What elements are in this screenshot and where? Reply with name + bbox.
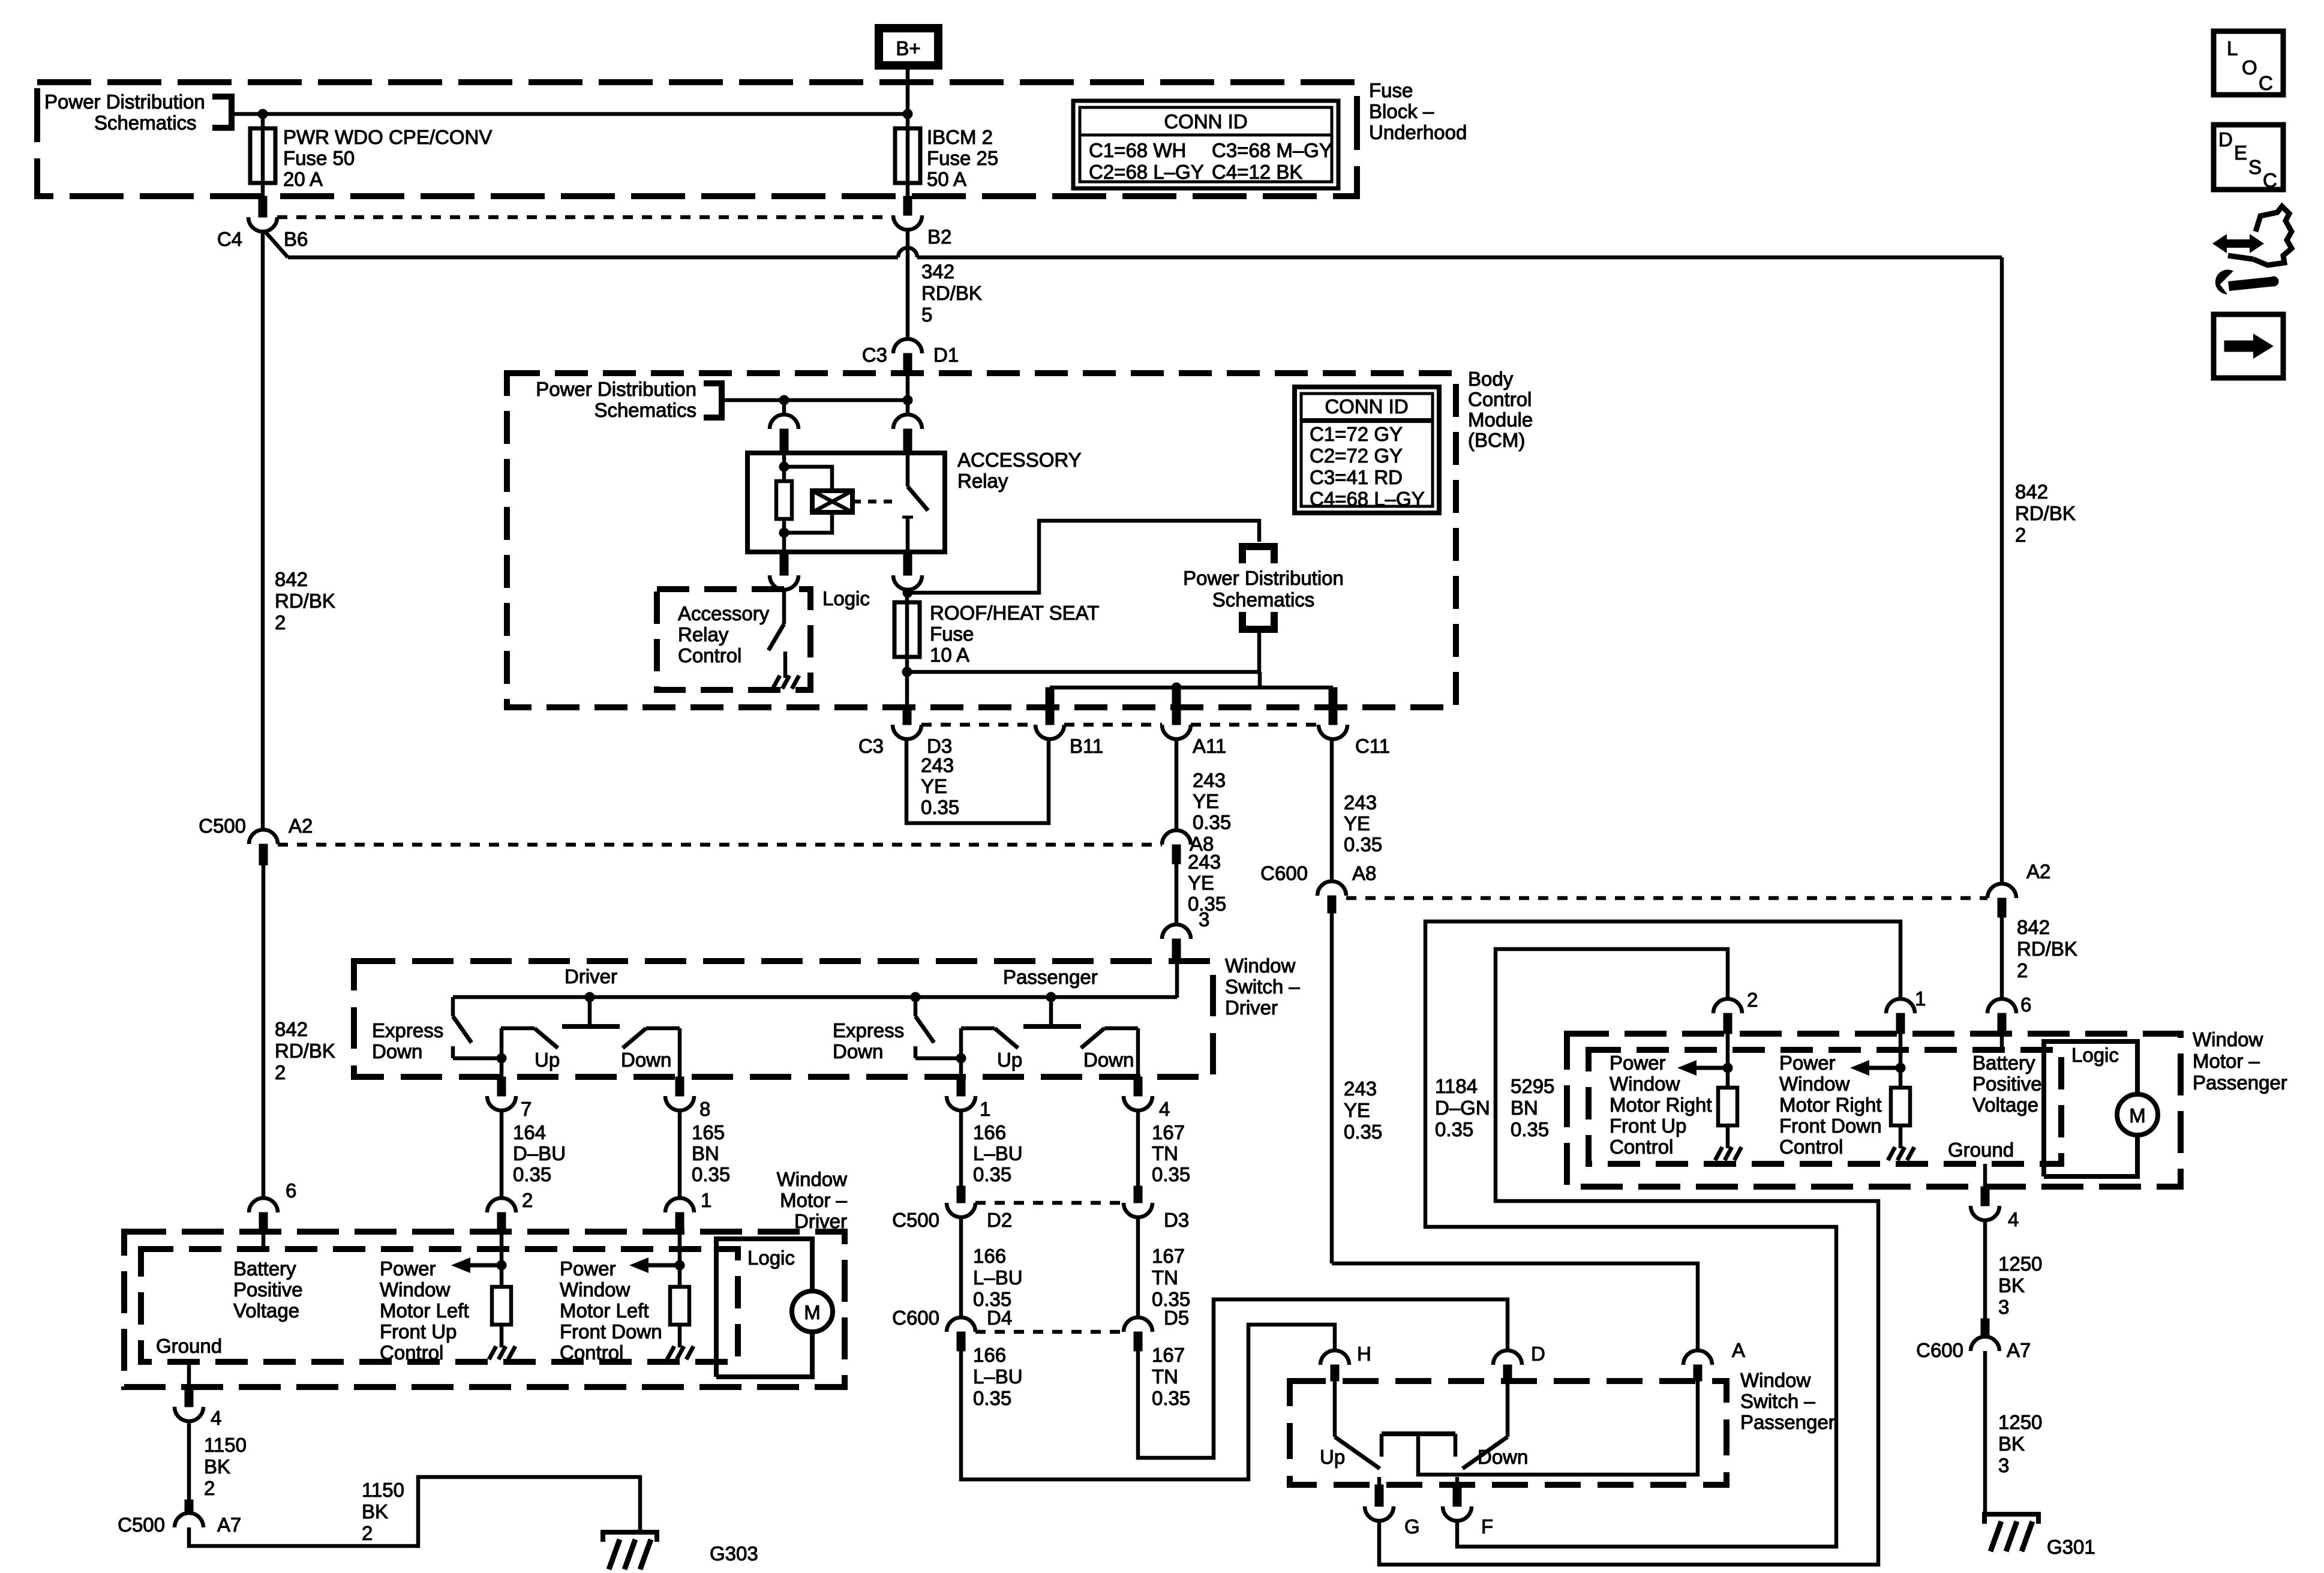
svg-text:A7: A7: [217, 1514, 241, 1536]
svg-text:D2: D2: [987, 1209, 1012, 1231]
svg-text:Power Distribution: Power Distribution: [44, 91, 205, 113]
svg-text:Motor Right: Motor Right: [1779, 1094, 1882, 1116]
svg-text:IBCM 2: IBCM 2: [927, 126, 993, 148]
svg-text:Fuse 50: Fuse 50: [283, 147, 355, 169]
svg-text:4: 4: [1159, 1098, 1170, 1120]
svg-text:C1=68 WH: C1=68 WH: [1089, 139, 1186, 161]
svg-text:C2=68 L–GY: C2=68 L–GY: [1089, 161, 1204, 183]
svg-text:C600: C600: [892, 1307, 939, 1329]
svg-text:Front Up: Front Up: [1610, 1115, 1686, 1137]
svg-text:0.35: 0.35: [1193, 811, 1231, 833]
svg-text:3: 3: [1199, 908, 1209, 930]
svg-text:167: 167: [1152, 1245, 1185, 1267]
svg-text:Window: Window: [380, 1278, 451, 1301]
svg-text:Window: Window: [777, 1168, 848, 1190]
svg-text:Up: Up: [997, 1049, 1022, 1071]
svg-text:Motor Left: Motor Left: [380, 1299, 469, 1322]
svg-text:Front Down: Front Down: [560, 1320, 662, 1343]
svg-text:Control: Control: [678, 644, 741, 667]
svg-text:TN: TN: [1152, 1142, 1178, 1164]
svg-text:Passenger: Passenger: [2193, 1071, 2287, 1094]
svg-text:1: 1: [701, 1189, 711, 1211]
svg-text:Driver: Driver: [1225, 996, 1278, 1019]
svg-text:C500: C500: [118, 1514, 165, 1536]
svg-text:G303: G303: [710, 1542, 758, 1565]
svg-text:A2: A2: [289, 815, 313, 837]
svg-text:243: 243: [1344, 791, 1377, 813]
svg-text:Voltage: Voltage: [1972, 1094, 2038, 1116]
svg-text:166: 166: [973, 1245, 1006, 1267]
svg-text:RD/BK: RD/BK: [2015, 502, 2076, 524]
svg-text:Positive: Positive: [233, 1278, 303, 1301]
svg-text:0.35: 0.35: [1344, 1121, 1382, 1143]
svg-text:0.35: 0.35: [1152, 1387, 1190, 1409]
svg-text:Up: Up: [1320, 1446, 1345, 1468]
svg-text:Window: Window: [2193, 1028, 2263, 1050]
svg-text:D–BU: D–BU: [513, 1142, 566, 1164]
svg-text:2: 2: [204, 1477, 215, 1499]
svg-text:C3=68 M–GY: C3=68 M–GY: [1212, 139, 1332, 161]
svg-text:Motor Right: Motor Right: [1610, 1094, 1712, 1116]
svg-text:Motor –: Motor –: [2193, 1050, 2260, 1072]
svg-text:0.35: 0.35: [1344, 833, 1382, 855]
svg-text:M: M: [804, 1301, 821, 1323]
svg-text:7: 7: [521, 1098, 532, 1120]
svg-text:RD/BK: RD/BK: [275, 590, 335, 612]
svg-text:Voltage: Voltage: [233, 1299, 299, 1322]
svg-text:342: 342: [921, 260, 954, 283]
svg-text:A11: A11: [1193, 735, 1226, 757]
svg-text:Control: Control: [1779, 1136, 1843, 1158]
svg-text:Relay: Relay: [678, 623, 729, 646]
svg-text:D: D: [2218, 128, 2233, 151]
svg-text:Passenger: Passenger: [1740, 1411, 1835, 1433]
svg-text:C600: C600: [1260, 862, 1308, 884]
svg-text:H: H: [1357, 1343, 1371, 1365]
svg-text:A2: A2: [2026, 860, 2050, 882]
svg-text:Down: Down: [1083, 1049, 1134, 1071]
svg-text:167: 167: [1152, 1344, 1185, 1366]
svg-text:Window: Window: [1610, 1073, 1680, 1095]
svg-text:Logic: Logic: [822, 587, 870, 610]
svg-text:Express: Express: [833, 1019, 904, 1041]
svg-text:0.35: 0.35: [973, 1163, 1011, 1185]
svg-text:C4=12 BK: C4=12 BK: [1212, 161, 1302, 183]
svg-text:Body: Body: [1468, 368, 1514, 390]
svg-text:0.35: 0.35: [692, 1163, 730, 1185]
svg-text:243: 243: [1193, 769, 1226, 791]
svg-text:1150: 1150: [204, 1434, 247, 1456]
svg-text:Up: Up: [535, 1049, 560, 1071]
svg-text:20 A: 20 A: [283, 168, 323, 190]
svg-text:A7: A7: [2007, 1339, 2031, 1361]
svg-text:Ground: Ground: [156, 1335, 222, 1357]
svg-text:Front Up: Front Up: [380, 1320, 457, 1343]
svg-text:1: 1: [1915, 987, 1926, 1010]
svg-text:Underhood: Underhood: [1369, 121, 1467, 143]
svg-text:TN: TN: [1152, 1266, 1178, 1289]
svg-text:C500: C500: [199, 815, 246, 837]
svg-text:BK: BK: [362, 1500, 388, 1523]
svg-text:Switch –: Switch –: [1225, 975, 1300, 998]
svg-text:Battery: Battery: [1972, 1052, 2035, 1074]
svg-text:D5: D5: [1164, 1307, 1189, 1329]
svg-text:BN: BN: [692, 1142, 719, 1164]
svg-text:Fuse: Fuse: [1369, 79, 1413, 101]
svg-text:50 A: 50 A: [927, 168, 966, 190]
svg-text:10 A: 10 A: [930, 644, 969, 666]
svg-text:5295: 5295: [1511, 1075, 1554, 1097]
svg-text:166: 166: [973, 1344, 1006, 1366]
svg-text:L: L: [2227, 37, 2238, 59]
svg-text:842: 842: [2017, 916, 2050, 938]
svg-text:Schematics: Schematics: [1212, 589, 1315, 611]
svg-text:Control: Control: [1610, 1136, 1673, 1158]
svg-text:D3: D3: [1164, 1209, 1189, 1231]
svg-text:Control: Control: [1468, 388, 1532, 410]
svg-text:RD/BK: RD/BK: [275, 1040, 335, 1062]
svg-text:Power: Power: [1610, 1052, 1666, 1074]
svg-text:3: 3: [1998, 1296, 2009, 1318]
svg-text:D: D: [1531, 1343, 1545, 1365]
svg-text:YE: YE: [1344, 812, 1370, 834]
svg-text:2: 2: [275, 1061, 286, 1083]
svg-text:S: S: [2248, 156, 2262, 178]
svg-text:1150: 1150: [362, 1479, 404, 1501]
svg-text:L–BU: L–BU: [973, 1142, 1023, 1164]
svg-text:Window: Window: [1225, 954, 1296, 977]
svg-text:Driver: Driver: [565, 965, 617, 987]
svg-text:Express: Express: [372, 1019, 443, 1041]
svg-text:Driver: Driver: [794, 1210, 847, 1232]
svg-text:BK: BK: [1998, 1274, 2025, 1296]
svg-text:B+: B+: [896, 37, 920, 59]
svg-text:G: G: [1404, 1515, 1420, 1538]
svg-text:1: 1: [980, 1098, 990, 1120]
svg-text:165: 165: [692, 1121, 725, 1143]
svg-text:Motor Left: Motor Left: [560, 1299, 649, 1322]
svg-text:YE: YE: [1193, 790, 1219, 812]
svg-text:Passenger: Passenger: [1003, 966, 1098, 988]
svg-text:F: F: [1481, 1515, 1493, 1538]
svg-text:(BCM): (BCM): [1468, 429, 1525, 451]
svg-text:Power: Power: [380, 1257, 436, 1280]
svg-text:Relay: Relay: [957, 470, 1008, 492]
svg-text:Window: Window: [560, 1278, 630, 1301]
svg-text:2: 2: [2015, 524, 2026, 546]
svg-text:Accessory: Accessory: [678, 602, 770, 625]
svg-text:1250: 1250: [1998, 1411, 2042, 1433]
svg-text:C4=68 L–GY: C4=68 L–GY: [1310, 488, 1425, 510]
svg-text:Fuse 25: Fuse 25: [927, 147, 998, 169]
svg-text:2: 2: [522, 1189, 533, 1211]
svg-text:ROOF/HEAT SEAT: ROOF/HEAT SEAT: [930, 602, 1099, 624]
svg-text:Logic: Logic: [747, 1247, 795, 1269]
svg-text:C11: C11: [1355, 735, 1390, 757]
svg-text:167: 167: [1152, 1121, 1185, 1143]
svg-text:Module: Module: [1468, 409, 1533, 431]
svg-text:C2=72 GY: C2=72 GY: [1310, 445, 1403, 467]
svg-text:BN: BN: [1511, 1097, 1538, 1119]
svg-text:842: 842: [275, 568, 308, 590]
svg-text:D4: D4: [987, 1307, 1012, 1329]
svg-text:Schematics: Schematics: [94, 112, 197, 134]
svg-text:243: 243: [921, 754, 954, 776]
svg-text:0.35: 0.35: [1152, 1163, 1190, 1185]
svg-text:4: 4: [211, 1407, 221, 1429]
svg-text:6: 6: [2020, 993, 2031, 1016]
svg-text:Window: Window: [1740, 1369, 1811, 1391]
svg-text:Switch –: Switch –: [1740, 1390, 1815, 1412]
svg-text:E: E: [2234, 142, 2247, 164]
svg-text:2: 2: [2017, 959, 2028, 981]
svg-text:BK: BK: [1998, 1433, 2025, 1455]
svg-text:B2: B2: [927, 226, 951, 248]
svg-text:L–BU: L–BU: [973, 1365, 1023, 1388]
svg-text:C3=41 RD: C3=41 RD: [1310, 466, 1403, 488]
svg-text:3: 3: [1998, 1454, 2009, 1476]
svg-text:TN: TN: [1152, 1365, 1178, 1388]
svg-text:0.35: 0.35: [1511, 1118, 1549, 1140]
svg-text:Block –: Block –: [1369, 100, 1434, 122]
svg-text:Fuse: Fuse: [930, 623, 974, 645]
svg-text:0.35: 0.35: [513, 1163, 551, 1185]
svg-text:2: 2: [1747, 989, 1758, 1011]
svg-text:M: M: [2129, 1104, 2146, 1127]
svg-text:CONN ID: CONN ID: [1325, 395, 1408, 418]
svg-text:Front Down: Front Down: [1779, 1115, 1882, 1137]
svg-text:8: 8: [699, 1098, 710, 1120]
svg-text:2: 2: [362, 1522, 373, 1544]
svg-text:Control: Control: [380, 1341, 443, 1364]
svg-text:D1: D1: [933, 344, 959, 366]
svg-text:RD/BK: RD/BK: [921, 282, 982, 304]
svg-text:C3: C3: [862, 344, 887, 366]
svg-text:B6: B6: [284, 228, 308, 250]
svg-text:Control: Control: [560, 1341, 623, 1364]
svg-text:C600: C600: [1916, 1339, 1963, 1361]
svg-text:L–BU: L–BU: [973, 1266, 1023, 1289]
svg-text:164: 164: [513, 1121, 546, 1143]
svg-text:Power: Power: [1779, 1052, 1836, 1074]
svg-text:A8: A8: [1352, 862, 1376, 884]
svg-text:C: C: [2259, 72, 2273, 94]
svg-text:Down: Down: [1478, 1446, 1528, 1468]
svg-text:YE: YE: [1344, 1099, 1370, 1121]
svg-text:A: A: [1732, 1339, 1745, 1361]
svg-text:Window: Window: [1779, 1073, 1850, 1095]
svg-text:4: 4: [2008, 1208, 2019, 1230]
svg-text:ACCESSORY: ACCESSORY: [957, 449, 1082, 471]
svg-text:Down: Down: [621, 1049, 671, 1071]
svg-text:243: 243: [1188, 851, 1221, 873]
svg-text:O: O: [2242, 56, 2257, 79]
svg-text:CONN ID: CONN ID: [1164, 110, 1247, 133]
svg-text:Logic: Logic: [2071, 1044, 2119, 1066]
svg-text:C4: C4: [217, 228, 242, 250]
svg-text:1184: 1184: [1435, 1075, 1478, 1097]
svg-text:YE: YE: [1188, 872, 1214, 894]
svg-text:C: C: [2263, 169, 2277, 191]
svg-text:842: 842: [2015, 481, 2048, 503]
svg-text:C1=72 GY: C1=72 GY: [1310, 423, 1403, 445]
svg-text:PWR WDO CPE/CONV: PWR WDO CPE/CONV: [283, 126, 492, 148]
svg-text:Power Distribution: Power Distribution: [1183, 567, 1344, 589]
svg-text:Schematics: Schematics: [594, 399, 696, 421]
svg-text:166: 166: [973, 1121, 1006, 1143]
svg-text:BK: BK: [204, 1455, 230, 1478]
svg-text:YE: YE: [921, 775, 947, 797]
svg-text:1250: 1250: [1998, 1253, 2042, 1275]
svg-text:Down: Down: [833, 1040, 883, 1062]
svg-text:0.35: 0.35: [973, 1387, 1011, 1409]
svg-text:Ground: Ground: [1948, 1139, 2014, 1161]
svg-text:Power: Power: [560, 1257, 616, 1280]
svg-text:C3: C3: [858, 735, 884, 757]
svg-text:5: 5: [921, 304, 932, 326]
svg-text:D–GN: D–GN: [1435, 1097, 1490, 1119]
svg-text:Positive: Positive: [1972, 1073, 2042, 1095]
svg-text:0.35: 0.35: [1435, 1118, 1473, 1140]
svg-text:243: 243: [1344, 1077, 1377, 1100]
svg-text:842: 842: [275, 1018, 308, 1040]
svg-text:Battery: Battery: [233, 1257, 296, 1280]
svg-text:2: 2: [275, 611, 286, 634]
svg-text:6: 6: [286, 1179, 296, 1202]
svg-text:C500: C500: [892, 1209, 939, 1231]
svg-text:Motor –: Motor –: [780, 1189, 848, 1211]
svg-text:G301: G301: [2047, 1536, 2095, 1558]
svg-text:B11: B11: [1070, 735, 1103, 757]
svg-text:RD/BK: RD/BK: [2017, 938, 2077, 960]
svg-text:Power Distribution: Power Distribution: [536, 378, 696, 400]
svg-text:Down: Down: [372, 1040, 422, 1062]
svg-text:0.35: 0.35: [921, 796, 959, 818]
